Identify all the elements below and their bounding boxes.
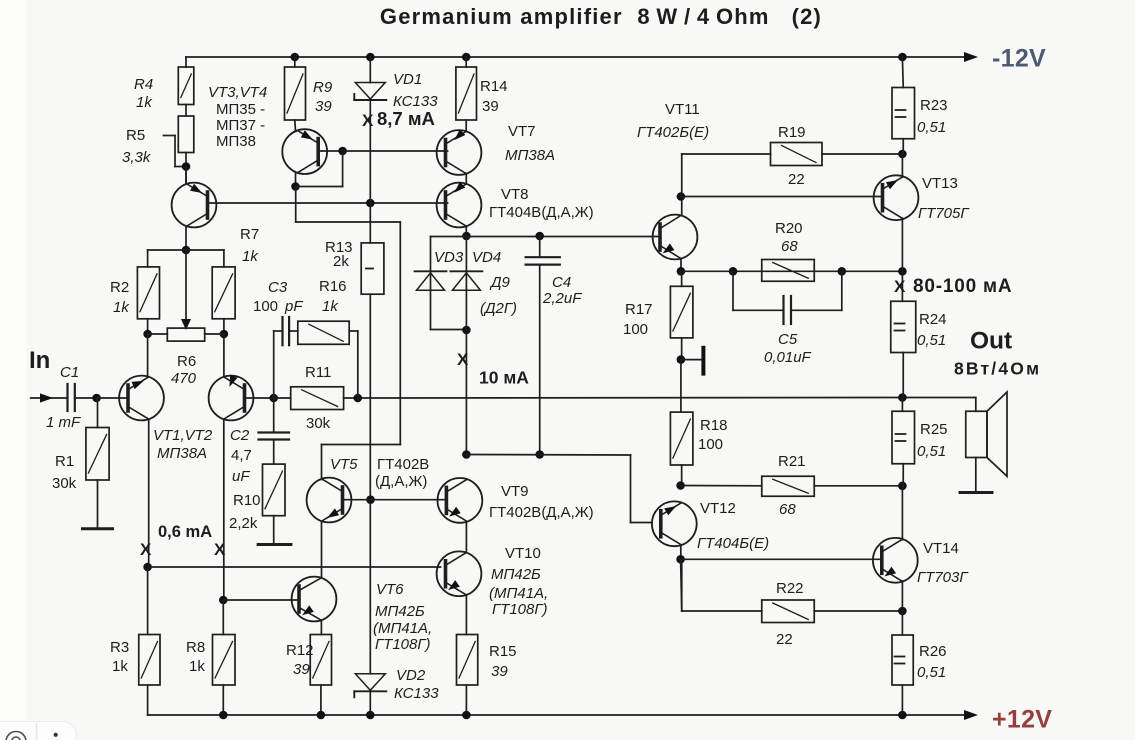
svg-text:R19: R19	[778, 124, 806, 141]
svg-text:(Д,А,Ж): (Д,А,Ж)	[375, 473, 427, 490]
svg-text:3,3k: 3,3k	[122, 149, 152, 166]
svg-text:1k: 1k	[112, 658, 128, 675]
svg-text:68: 68	[779, 501, 796, 518]
svg-text:МП38А: МП38А	[505, 147, 555, 164]
svg-text:(МП41А,: (МП41А,	[373, 620, 432, 637]
svg-text:R1: R1	[55, 453, 74, 470]
svg-text:C1: C1	[60, 364, 79, 381]
svg-text:R6: R6	[177, 353, 196, 370]
svg-text:(Д2Г): (Д2Г)	[480, 300, 517, 317]
svg-text:1k: 1k	[242, 248, 259, 265]
svg-text:ГТ402В(Д,А,Ж): ГТ402В(Д,А,Ж)	[489, 504, 594, 521]
svg-text:4,7: 4,7	[231, 447, 252, 464]
svg-text:МП42Б: МП42Б	[375, 603, 425, 620]
svg-text:ГТ705Г: ГТ705Г	[918, 205, 970, 222]
svg-text:VD2: VD2	[396, 667, 426, 684]
svg-text:2,2uF: 2,2uF	[542, 290, 582, 307]
svg-text:R5: R5	[126, 127, 145, 144]
svg-text:R14: R14	[480, 78, 508, 95]
svg-text:R22: R22	[776, 580, 804, 597]
svg-text:R17: R17	[625, 301, 653, 318]
svg-text:МП38А: МП38А	[157, 445, 207, 462]
svg-text:КС133: КС133	[394, 685, 439, 702]
svg-text:1k: 1k	[136, 94, 153, 111]
svg-text:pF: pF	[284, 298, 303, 315]
svg-text:R3: R3	[110, 639, 129, 656]
svg-text:Out: Out	[970, 328, 1012, 355]
svg-text:VD4: VD4	[472, 249, 501, 266]
svg-text:39: 39	[293, 661, 310, 678]
svg-text:VT3,VT4: VT3,VT4	[208, 84, 267, 101]
svg-text:0,51: 0,51	[917, 664, 946, 681]
svg-text:In: In	[29, 347, 50, 374]
svg-text:8,7 мА: 8,7 мА	[377, 108, 435, 129]
svg-text:ГТ108Г): ГТ108Г)	[492, 601, 548, 618]
svg-text:R25: R25	[920, 421, 948, 438]
svg-text:VT10: VT10	[505, 545, 541, 562]
svg-text:R8: R8	[186, 639, 205, 656]
svg-text:68: 68	[781, 238, 798, 255]
svg-text:ГТ402Б(Е): ГТ402Б(Е)	[637, 124, 709, 141]
svg-text:80-100 мА: 80-100 мА	[913, 276, 1012, 297]
svg-text:30k: 30k	[52, 475, 77, 492]
svg-text:R7: R7	[240, 226, 259, 243]
svg-text:0,01uF: 0,01uF	[764, 349, 812, 366]
svg-text:1 mF: 1 mF	[46, 414, 81, 431]
svg-text:ГТ402В: ГТ402В	[377, 456, 429, 473]
svg-text:ГТ108Г): ГТ108Г)	[375, 636, 431, 653]
svg-text:МП42Б: МП42Б	[491, 566, 541, 583]
svg-text:VT1,VT2: VT1,VT2	[153, 427, 213, 444]
svg-text:R24: R24	[919, 311, 947, 328]
svg-text:VD1: VD1	[393, 71, 422, 88]
svg-text:10 мА: 10 мА	[479, 368, 529, 388]
svg-text:X: X	[894, 277, 906, 296]
svg-text:R10: R10	[233, 492, 261, 509]
svg-text:22: 22	[776, 631, 793, 648]
svg-text:МП38: МП38	[216, 133, 256, 150]
svg-text:ГТ703Г: ГТ703Г	[917, 569, 969, 586]
svg-text:R16: R16	[319, 278, 347, 295]
svg-text:0,51: 0,51	[917, 332, 946, 349]
svg-text:R26: R26	[919, 643, 947, 660]
svg-text:2,2k: 2,2k	[229, 515, 258, 532]
svg-text:470: 470	[171, 370, 197, 387]
svg-text:0,51: 0,51	[917, 119, 946, 136]
svg-text:39: 39	[482, 98, 499, 115]
svg-text:C5: C5	[778, 331, 798, 348]
svg-text:Germanium amplifier 8 W / 4 O: Germanium amplifier 8 W / 4 Ohm (2)	[380, 4, 822, 29]
svg-text:R11: R11	[305, 364, 331, 381]
svg-text:uF: uF	[232, 468, 250, 485]
svg-text:1k: 1k	[322, 298, 339, 315]
svg-text:39: 39	[491, 663, 508, 680]
svg-text:VT5: VT5	[330, 456, 358, 473]
svg-text:39: 39	[315, 98, 332, 115]
svg-text:C3: C3	[268, 279, 288, 296]
svg-text:22: 22	[788, 171, 805, 188]
svg-text:100: 100	[698, 436, 723, 453]
svg-text:1k: 1k	[189, 658, 205, 675]
svg-text:X: X	[457, 350, 469, 369]
svg-text:VT14: VT14	[923, 540, 959, 557]
svg-text:X: X	[214, 540, 226, 559]
svg-text:VT8: VT8	[501, 186, 529, 203]
svg-text:VT9: VT9	[501, 483, 529, 500]
svg-text:VT12: VT12	[700, 500, 736, 517]
svg-text:X: X	[362, 111, 374, 130]
svg-text:C4: C4	[552, 274, 571, 291]
svg-text:R18: R18	[700, 417, 728, 434]
svg-text:ГТ404Б(Е): ГТ404Б(Е)	[697, 535, 769, 552]
svg-text:ГТ404В(Д,А,Ж): ГТ404В(Д,А,Ж)	[489, 204, 594, 221]
svg-text:Д9: Д9	[489, 274, 511, 291]
svg-text:(МП41А,: (МП41А,	[489, 585, 548, 602]
svg-text:100: 100	[623, 321, 648, 338]
svg-text:R15: R15	[489, 643, 517, 660]
svg-text:R4: R4	[134, 76, 153, 93]
svg-text:0,51: 0,51	[917, 443, 946, 460]
svg-text:VT13: VT13	[922, 175, 958, 192]
svg-text:2k: 2k	[333, 253, 349, 270]
svg-text:VT6: VT6	[376, 581, 404, 598]
svg-text:R20: R20	[775, 220, 803, 237]
svg-text:R12: R12	[286, 642, 314, 659]
svg-text:-12V: -12V	[992, 45, 1046, 73]
svg-text:VT7: VT7	[508, 123, 536, 140]
svg-text:+12V: +12V	[992, 706, 1052, 734]
svg-text:8Вт/4Ом: 8Вт/4Ом	[954, 359, 1041, 379]
svg-text:R23: R23	[920, 97, 948, 114]
svg-text:VD3: VD3	[434, 249, 464, 266]
svg-text:C2: C2	[230, 427, 250, 444]
svg-text:МП35 -: МП35 -	[216, 101, 265, 118]
svg-text:R9: R9	[313, 79, 333, 96]
svg-text:30k: 30k	[306, 415, 331, 432]
svg-text:100: 100	[253, 298, 278, 315]
svg-text:R21: R21	[778, 453, 806, 470]
svg-text:0,6 mA: 0,6 mA	[158, 523, 212, 541]
svg-text:VT11: VT11	[665, 101, 700, 118]
svg-text:X: X	[140, 540, 152, 559]
svg-text:R2: R2	[110, 279, 129, 296]
svg-text:1k: 1k	[113, 299, 130, 316]
svg-text:МП37 -: МП37 -	[216, 117, 265, 134]
